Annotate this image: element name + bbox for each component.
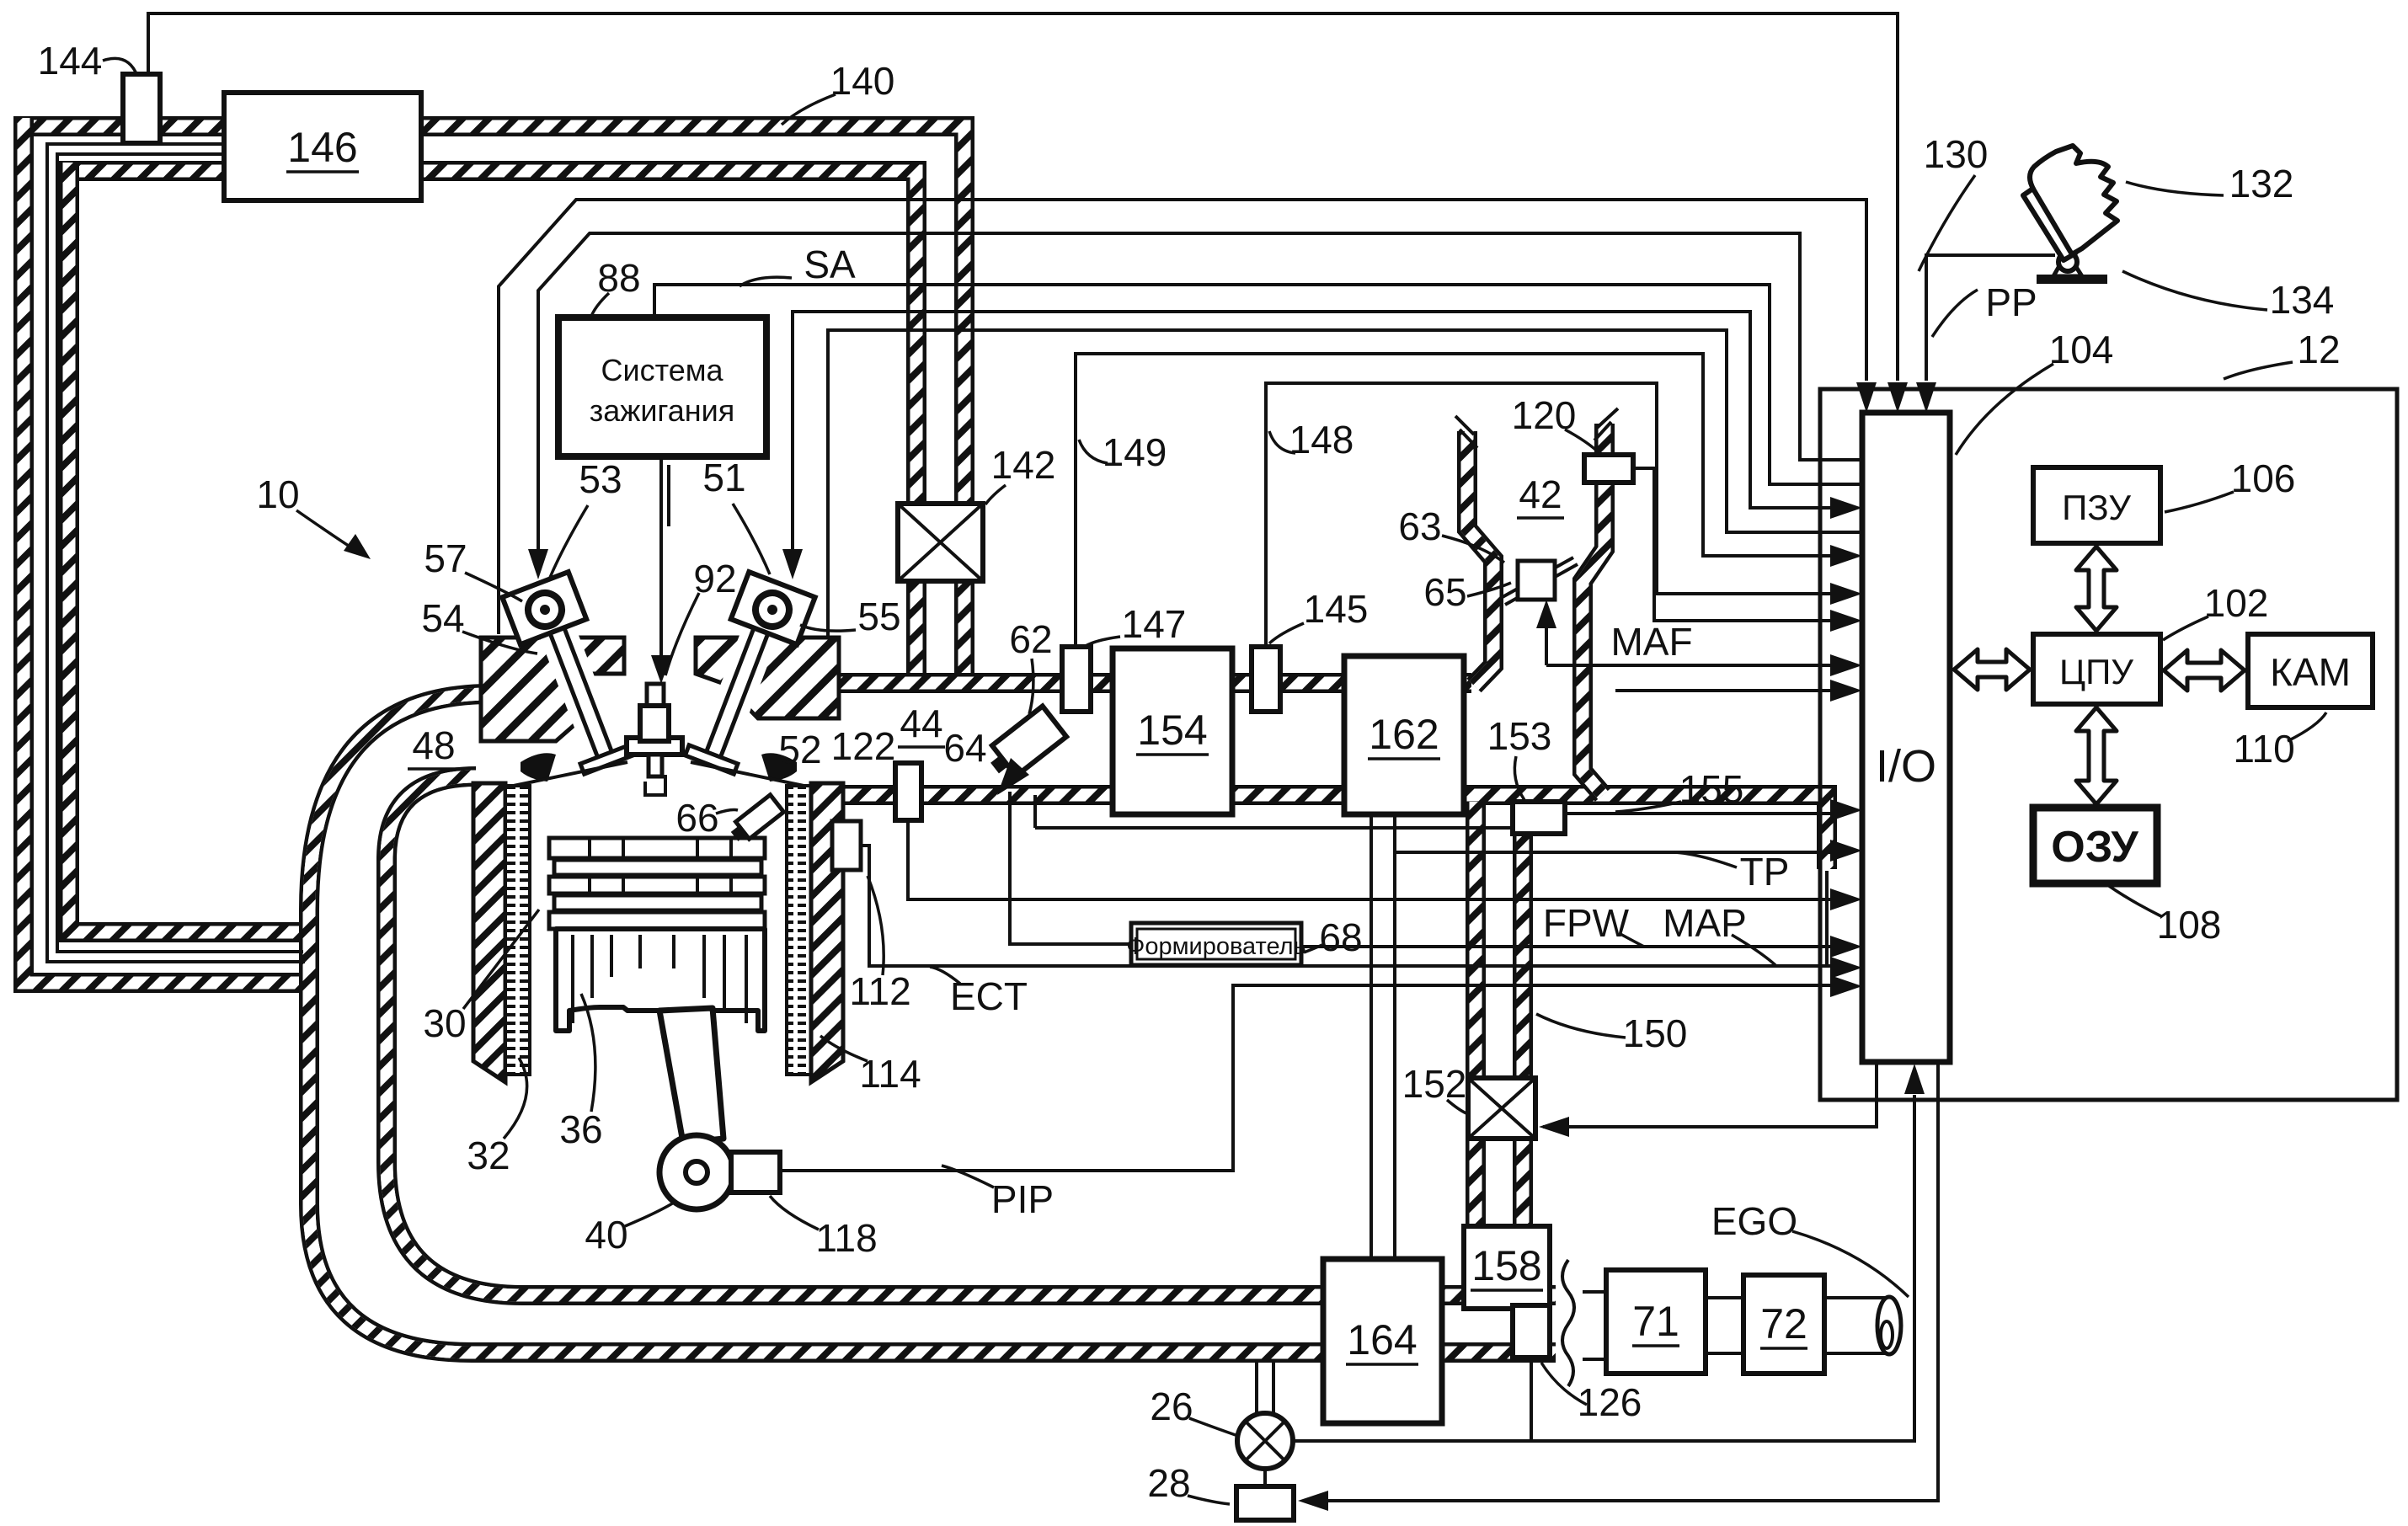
cylinder liner right dotted	[787, 786, 811, 1075]
cylinder head left hatched block	[481, 638, 624, 741]
svg-text:108: 108	[2157, 903, 2222, 947]
ROM box 106	[2033, 467, 2160, 543]
leader 26	[1189, 1418, 1236, 1435]
svg-text:SA: SA	[804, 243, 856, 286]
svg-text:149: 149	[1103, 430, 1167, 474]
leader 53	[549, 505, 588, 579]
valve channel right (white)	[692, 584, 793, 771]
leader PIP	[942, 1166, 994, 1187]
svg-text:ЦПУ: ЦПУ	[2059, 652, 2133, 691]
bus arrow CPU-RAM	[2076, 707, 2117, 804]
svg-text:72: 72	[1760, 1300, 1807, 1347]
purge line 150 right wall	[1513, 802, 1533, 1080]
wire 149 from sensor 147 to I/O row 660	[1076, 354, 1834, 647]
leader 36	[581, 994, 595, 1112]
intake plenum 48 inner wall sweeping to upper exhaust wall	[387, 776, 1580, 1295]
EGR valve 142 (X box)	[898, 504, 983, 581]
svg-text:118: 118	[815, 1216, 877, 1260]
pipe from valve 142 down to intake manifold, right wall	[954, 569, 974, 689]
svg-text:134: 134	[2270, 278, 2335, 322]
underline 162	[1368, 757, 1440, 760]
arrowhead into I/O row 660 (149 wire)	[1830, 545, 1862, 567]
ignition system box 88	[558, 317, 766, 456]
box 28	[1236, 1486, 1294, 1520]
svg-text:144: 144	[38, 39, 103, 83]
box 158	[1464, 1226, 1550, 1309]
ECT sensor 112	[832, 821, 861, 870]
wire E to I/O row 632	[828, 330, 1864, 636]
svg-text:114: 114	[859, 1052, 921, 1096]
catalyst box 71	[1606, 1270, 1706, 1374]
svg-text:MAF: MAF	[1610, 620, 1692, 664]
leader 126	[1541, 1363, 1587, 1405]
leader 92	[665, 593, 699, 675]
leader PP	[1932, 290, 1978, 337]
arrowhead up into I/O bottom (EGO)	[1904, 1064, 1925, 1094]
leader 54	[462, 632, 537, 654]
cylinder wall left hatched	[473, 783, 505, 1082]
pipe from valve 142 down to intake manifold, left wall	[906, 569, 926, 689]
svg-text:63: 63	[1398, 504, 1441, 548]
PIP sensor 118	[731, 1152, 780, 1193]
purge valve 152 (X box)	[1468, 1078, 1535, 1139]
underline 42	[1517, 516, 1564, 520]
wire from valve 144 along top to I/O	[148, 13, 1898, 381]
leader 32	[504, 1058, 527, 1139]
leader 134	[2122, 271, 2267, 310]
box 162	[1344, 656, 1464, 814]
svg-text:52: 52	[778, 728, 821, 771]
leader 63	[1442, 536, 1504, 563]
I/O control wire to purge valve 152	[1543, 1064, 1877, 1127]
svg-text:26: 26	[1150, 1385, 1193, 1428]
arrowhead into I/O row 705 (148 wire)	[1830, 583, 1862, 605]
valve channel left (white)	[525, 584, 626, 771]
stack 42 inlet flares	[1455, 416, 1477, 448]
svg-text:155: 155	[1679, 767, 1744, 811]
leader 62	[1029, 659, 1033, 714]
fuel vapor valve 144	[123, 74, 160, 143]
sensor 122	[895, 763, 921, 820]
EGO sensor wire to I/O bottom	[1294, 1095, 1914, 1441]
wire from sensor 122 to I/O row 1068	[908, 820, 1834, 899]
arrowhead into I/O row 962 (155)	[1830, 799, 1862, 821]
arrowhead into I/O row 737 (120 wire)	[1830, 610, 1862, 632]
cylinder wall right hatched	[811, 783, 843, 1082]
arrowhead to intake valve	[528, 549, 548, 579]
svg-text:FPW: FPW	[1543, 901, 1630, 945]
svg-text:120: 120	[1512, 393, 1577, 437]
catalyst box 72	[1743, 1275, 1824, 1374]
purge line below valve 152 left wall	[1466, 1137, 1486, 1230]
leader 149	[1079, 440, 1108, 463]
arrowhead of leader 10	[344, 534, 371, 559]
arrowhead on plug lead	[651, 655, 671, 684]
leader 65	[1467, 583, 1511, 596]
MAP tap from manifold end	[1825, 871, 1829, 966]
underline 44	[898, 745, 945, 749]
pipe between 71/72	[1706, 1298, 1743, 1353]
leader 153	[1514, 756, 1524, 800]
purge line 150 left wall	[1466, 802, 1486, 1080]
fuel injector 66	[728, 795, 783, 846]
driver 68 output to injector 64	[1010, 792, 1131, 944]
leader 150	[1536, 1014, 1626, 1038]
accelerator pedal 130/132	[2023, 146, 2117, 284]
svg-text:92: 92	[693, 557, 736, 600]
svg-text:EGO: EGO	[1711, 1199, 1797, 1243]
EGR control valve 26	[1257, 1363, 1273, 1413]
combustion chamber roof 52	[505, 762, 812, 787]
underline 48	[408, 767, 460, 771]
svg-text:54: 54	[421, 596, 464, 640]
leader 57	[465, 573, 522, 601]
bus arrow I/O-CPU	[1954, 649, 2030, 690]
spark plug high tension lead	[659, 458, 663, 672]
leader 118	[770, 1196, 819, 1230]
svg-text:145: 145	[1304, 587, 1369, 631]
svg-text:152: 152	[1402, 1062, 1467, 1106]
fuel injector 64	[983, 706, 1066, 783]
svg-text:142: 142	[991, 443, 1056, 487]
svg-text:MAP: MAP	[1663, 901, 1747, 945]
svg-text:106: 106	[2231, 456, 2296, 500]
bus arrow ROM-CPU	[2076, 547, 2117, 631]
svg-text:102: 102	[2204, 581, 2269, 625]
intake stack 42 left wall with throttle venturi	[1467, 431, 1493, 686]
svg-text:88: 88	[597, 256, 640, 300]
leader 132	[2126, 182, 2224, 195]
svg-text:TP: TP	[1740, 850, 1790, 894]
leader 30	[463, 910, 539, 1009]
svg-text:130: 130	[1924, 132, 1989, 176]
leader 145	[1269, 623, 1304, 643]
wire from MAF sensor 120 to I/O row 737	[1633, 468, 1834, 621]
throttle plate 65 in stack 42	[1501, 558, 1578, 605]
PIP wire from sensor 118 to I/O row 1171	[780, 985, 1834, 1171]
underline 154	[1136, 753, 1209, 756]
piston 36 crown and rings	[549, 838, 765, 858]
leader FPW	[1619, 933, 1644, 947]
pipe break squiggle	[1556, 1262, 1583, 1388]
svg-text:110: 110	[2233, 727, 2294, 771]
sensor 145	[1252, 647, 1280, 712]
TP sensor 153	[1513, 802, 1565, 834]
leader 102	[2163, 616, 2208, 640]
piston skirt	[556, 929, 765, 1031]
svg-text:164: 164	[1347, 1316, 1417, 1363]
purge line below valve 152 right wall	[1513, 1137, 1533, 1230]
arrowhead into I/O row 1171 (PIP)	[1830, 975, 1862, 997]
leader 120	[1565, 430, 1599, 453]
underline 164	[1346, 1363, 1418, 1366]
svg-text:53: 53	[579, 457, 622, 501]
arrowhead into I/O row 790 (MAF)	[1830, 654, 1862, 676]
svg-text:65: 65	[1423, 570, 1466, 614]
EGR inner pipe wall left/bottom	[69, 163, 305, 932]
bus arrow CPU-KAM	[2164, 650, 2245, 691]
wire row 820	[1615, 689, 1834, 692]
tailpipe	[1824, 1298, 1889, 1353]
leader ECT	[930, 967, 960, 984]
svg-text:112: 112	[849, 969, 910, 1013]
leader SA	[739, 277, 792, 286]
ECT wire to I/O row 1149	[861, 846, 1834, 966]
I/O control wire to valves 26/28	[1303, 1064, 1938, 1501]
MAF signal wire row 790	[1546, 611, 1834, 665]
arrowhead into I/O row 1124 (FPW)	[1830, 936, 1862, 958]
svg-text:32: 32	[467, 1134, 510, 1177]
leader 88	[590, 293, 609, 318]
leader 108	[2109, 886, 2161, 916]
leader 155	[1615, 802, 1681, 812]
wires from box 162 down to box 164	[1371, 814, 1395, 1259]
pedal PP wire to I/O top	[1926, 255, 2055, 381]
svg-text:154: 154	[1137, 707, 1207, 754]
intake manifold 44 bottom wall	[836, 795, 1827, 869]
inner fresh-air hose double line to box 146	[47, 144, 305, 962]
cylinder liner left dotted	[505, 786, 530, 1075]
svg-text:66: 66	[675, 796, 718, 840]
leader EGO	[1792, 1231, 1909, 1297]
arrowhead into I/O top from valve 144 wire (130)	[1887, 382, 1908, 413]
svg-text:122: 122	[831, 724, 896, 768]
leader 152	[1447, 1100, 1466, 1113]
exhaust valve 51 stem	[685, 586, 798, 774]
svg-text:44: 44	[900, 702, 942, 745]
spark plug 92	[647, 684, 664, 707]
svg-text:ПЗУ: ПЗУ	[2062, 488, 2131, 527]
svg-text:PP: PP	[1985, 280, 2037, 324]
arrowhead into I/O row 1068 (122 wire)	[1830, 888, 1862, 910]
leader 110	[2288, 712, 2326, 741]
svg-text:Система: Система	[601, 353, 724, 387]
svg-text:62: 62	[1009, 617, 1052, 661]
svg-text:153: 153	[1487, 714, 1552, 758]
svg-text:132: 132	[2229, 162, 2294, 205]
FPW wire from driver 68 to I/O row 1124	[1301, 945, 1834, 948]
svg-text:10: 10	[256, 472, 299, 516]
leader 106	[2165, 492, 2234, 512]
intake plenum 48 outer wall sweeping to lower exhaust wall	[309, 694, 1580, 1353]
underline 71	[1632, 1344, 1679, 1347]
svg-text:126: 126	[1578, 1380, 1642, 1424]
arrowhead into I/O top from pedal PP wire	[1916, 382, 1936, 413]
leader 130	[1919, 175, 1975, 271]
arrowhead to exhaust valve	[782, 549, 803, 579]
svg-text:51: 51	[702, 456, 745, 499]
leader 40	[625, 1203, 674, 1226]
I/O box 104	[1862, 413, 1950, 1062]
svg-text:64: 64	[943, 726, 986, 770]
arrowhead into I/O row 603	[1830, 497, 1862, 519]
EGR outer pipe wall top/right to valve 142	[13, 126, 964, 504]
valve 51 spring retainer 55	[731, 572, 815, 644]
arrowhead into I/O row 1149 (ECT/MAP)	[1830, 957, 1862, 979]
connecting rod	[659, 1008, 723, 1143]
svg-text:36: 36	[559, 1107, 602, 1151]
cylinder head right hatched block	[696, 638, 839, 718]
leader 51	[733, 504, 770, 574]
svg-text:КАМ: КАМ	[2270, 650, 2351, 694]
valve seat dark wedges	[521, 753, 556, 782]
box 164	[1323, 1259, 1442, 1423]
wire from injector 64	[1035, 795, 1513, 828]
leader 140	[782, 94, 836, 125]
svg-text:71: 71	[1632, 1298, 1679, 1345]
svg-text:ОЗУ: ОЗУ	[2051, 823, 2138, 872]
wire D to I/O row 603	[793, 312, 1834, 556]
leader 147	[1084, 637, 1120, 647]
wire valve-cover outline A to I/O top	[499, 200, 1866, 634]
leader 104	[1956, 364, 2053, 455]
leader 114	[820, 1036, 868, 1061]
arrowhead up to throttle (MAF)	[1536, 600, 1556, 628]
underline 146	[286, 170, 359, 173]
svg-text:158: 158	[1471, 1242, 1541, 1289]
KAM box 110	[2248, 634, 2373, 707]
svg-text:42: 42	[1519, 472, 1562, 516]
svg-text:148: 148	[1289, 418, 1354, 462]
RAM box 108	[2033, 808, 2157, 883]
EGR outer pipe wall left/bottom	[24, 118, 307, 983]
arrowhead into I/O row 820	[1830, 680, 1862, 702]
leader 55	[800, 625, 856, 631]
svg-text:48: 48	[412, 723, 455, 767]
leader 112	[868, 876, 884, 975]
svg-text:12: 12	[2297, 328, 2340, 371]
svg-text:104: 104	[2049, 328, 2114, 371]
wire 155 from sensor 153 to I/O row 962	[1565, 812, 1834, 815]
intake stack 42 right wall	[1583, 424, 1604, 795]
arrowhead into valve 152	[1539, 1117, 1569, 1137]
MAF sensor 120	[1584, 455, 1633, 483]
svg-text:I/O: I/O	[1876, 741, 1936, 792]
EGR inner pipe wall top/right to valve 142	[59, 171, 916, 504]
leader 12	[2224, 362, 2293, 379]
svg-text:162: 162	[1369, 711, 1439, 758]
pipe between 158/71	[1583, 1292, 1606, 1359]
leader 10	[296, 510, 359, 552]
valve 53 spring retainer 57	[502, 572, 586, 644]
leader 68	[1304, 945, 1322, 952]
arrowhead into I/O row 1010 (TP)	[1830, 840, 1862, 862]
svg-text:146: 146	[287, 124, 357, 171]
underline 72	[1760, 1347, 1807, 1350]
arrowhead into box 28	[1298, 1491, 1328, 1511]
svg-text:68: 68	[1319, 915, 1362, 959]
underline 158	[1471, 1289, 1543, 1292]
svg-text:140: 140	[830, 59, 895, 103]
sensor 147	[1062, 647, 1091, 712]
svg-text:55: 55	[857, 595, 900, 638]
svg-text:зажигания: зажигания	[590, 393, 735, 428]
intake valve 53 stem	[520, 586, 633, 774]
svg-text:Формирователь: Формирователь	[1126, 933, 1305, 960]
leader TP	[1674, 852, 1737, 867]
canister box 146	[224, 93, 421, 200]
leader 28	[1188, 1496, 1230, 1504]
EGO sensor 126	[1513, 1305, 1550, 1358]
crankshaft 40	[659, 1135, 734, 1209]
arrowhead into I/O top from valve-cover wire	[1856, 382, 1877, 413]
wire 148 from sensor 145 to I/O row 705	[1266, 383, 1834, 647]
svg-text:40: 40	[585, 1213, 627, 1257]
svg-text:147: 147	[1122, 602, 1187, 646]
leader 144	[103, 58, 137, 76]
CPU box 102	[2033, 634, 2160, 704]
leader 142	[985, 485, 1006, 504]
box 154	[1113, 648, 1232, 814]
wire B from exhaust cam to I/O row 546	[538, 233, 1864, 556]
leader MAP	[1732, 935, 1775, 965]
svg-text:ECT: ECT	[950, 974, 1028, 1018]
intake manifold 44 top wall	[836, 673, 1471, 693]
svg-text:150: 150	[1623, 1011, 1688, 1055]
svg-text:30: 30	[423, 1001, 466, 1045]
SA wire from ignition system to I/O row 575	[654, 285, 1864, 484]
controller box 12	[1820, 389, 2397, 1100]
leader 148	[1269, 431, 1295, 453]
svg-text:PIP: PIP	[991, 1177, 1054, 1221]
leader 66	[716, 810, 738, 814]
svg-text:57: 57	[424, 536, 467, 580]
driver box 68	[1131, 923, 1301, 965]
TP wire to I/O row 1010	[1396, 851, 1834, 854]
svg-text:28: 28	[1147, 1461, 1190, 1505]
